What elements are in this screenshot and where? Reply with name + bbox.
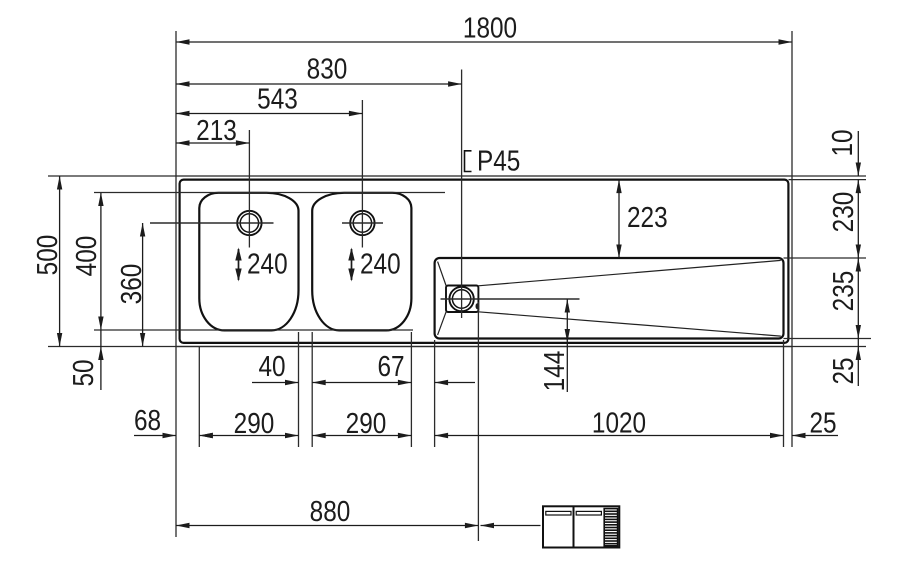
svg-text:500: 500 xyxy=(32,235,64,276)
svg-text:290: 290 xyxy=(234,408,275,440)
svg-text:223: 223 xyxy=(627,202,668,234)
svg-text:68: 68 xyxy=(134,405,161,437)
dim 68 tail left xyxy=(134,435,176,437)
dim 144 line xyxy=(566,299,568,392)
svg-text:144: 144 xyxy=(539,351,571,392)
bowl 1 hole crosshair vertical (213 extension) xyxy=(248,130,250,248)
extension line bowls top tangent xyxy=(94,192,445,194)
dim 830 line xyxy=(176,83,462,85)
svg-text:40: 40 xyxy=(258,351,285,383)
extension bowl1 left below xyxy=(198,347,200,447)
dim 1020 line xyxy=(435,435,784,437)
drainer diagonal top-left xyxy=(438,262,447,286)
svg-text:50: 50 xyxy=(68,359,100,386)
drain hole crosshair horizontal (144 top reference) xyxy=(441,298,580,300)
svg-text:235: 235 xyxy=(828,271,860,312)
svg-text:830: 830 xyxy=(307,54,348,86)
svg-text:213: 213 xyxy=(196,115,237,147)
counter inner edge rect (10mm edge profile) xyxy=(180,180,789,343)
dim 213 line xyxy=(176,142,249,144)
bowl 1 hole crosshair horizontal xyxy=(150,222,274,224)
svg-text:1020: 1020 xyxy=(592,408,646,440)
cabinet leader arrow xyxy=(481,525,541,527)
svg-text:67: 67 xyxy=(377,351,404,383)
extension bowl1 right below xyxy=(298,332,300,447)
drainer tray outline xyxy=(435,258,784,339)
drainer diagonal top-right xyxy=(478,260,781,285)
counter outer edge rect 1800x500 xyxy=(176,176,792,347)
svg-text:25: 25 xyxy=(828,357,860,384)
drainer diagonal bottom-left xyxy=(438,312,447,335)
svg-text:25: 25 xyxy=(809,408,836,440)
extension line left edge top xyxy=(175,31,177,176)
bowl 2 hole crosshair horizontal xyxy=(342,222,383,224)
drain hole crosshair vertical (830 extension) xyxy=(461,70,463,319)
extension line bowls bottom tangent xyxy=(94,329,413,331)
dim 400 line xyxy=(100,193,102,331)
extension drainer right below xyxy=(783,340,785,447)
dim 230 line xyxy=(857,180,859,258)
extension drainer left below xyxy=(434,340,436,447)
cabinet icon grille xyxy=(604,509,617,546)
svg-text:400: 400 xyxy=(71,236,103,277)
dim 50 line and arrow xyxy=(100,330,102,390)
bowl 2 faucet hole xyxy=(350,211,374,235)
dim 290 second line xyxy=(312,435,411,437)
dim 67 tail right xyxy=(435,382,475,384)
svg-text:10: 10 xyxy=(827,129,859,156)
dim 25 bottom tail xyxy=(792,435,838,437)
cabinet icon divider xyxy=(573,506,575,547)
extension 880 right (sump right) xyxy=(477,302,479,541)
extension counter right below xyxy=(791,347,793,447)
svg-text:880: 880 xyxy=(310,496,351,528)
extension top edge left xyxy=(48,175,176,177)
svg-text:240: 240 xyxy=(360,249,401,281)
svg-text:240: 240 xyxy=(247,249,288,281)
dim 500 line xyxy=(59,176,61,347)
small ink blob on sump right edge xyxy=(476,303,480,309)
dim 290 first line xyxy=(199,435,298,437)
svg-text:543: 543 xyxy=(257,84,298,116)
cabinet icon body xyxy=(543,506,619,547)
dim 880 line xyxy=(176,525,478,527)
svg-text:230: 230 xyxy=(828,192,860,233)
right extension drainer bottom xyxy=(784,338,872,340)
drainer diagonal bottom-right xyxy=(478,312,781,336)
dim 10 line xyxy=(857,131,859,176)
svg-text:360: 360 xyxy=(116,264,148,305)
dim 40/67 middle line xyxy=(312,382,411,384)
drain hole xyxy=(449,287,473,311)
extension bottom edge datum xyxy=(48,346,866,348)
dim 25 right line xyxy=(857,339,859,387)
cabinet icon handle right xyxy=(576,511,601,515)
extension bowl2 left below xyxy=(311,332,313,447)
svg-text:1800: 1800 xyxy=(463,13,517,45)
cabinet icon handle left xyxy=(546,511,571,515)
bowl 1 faucet hole xyxy=(237,211,261,235)
dim 360 line xyxy=(142,223,144,347)
bowl 2 outline xyxy=(312,193,411,331)
right extension inner top edge xyxy=(789,179,867,181)
extension counter left below (to 880 row) xyxy=(175,347,177,537)
right extension top edge xyxy=(792,175,866,177)
P45 edge symbol xyxy=(465,151,472,172)
dim 235 line xyxy=(857,258,859,339)
bowl 1 outline xyxy=(199,193,298,331)
extension line right edge top xyxy=(791,31,793,176)
dim 1800 line xyxy=(176,41,792,43)
dim 40 tail left xyxy=(252,382,299,384)
dim 223 line xyxy=(618,180,620,258)
bowl 1 240 double arrow xyxy=(238,249,240,280)
svg-text:290: 290 xyxy=(346,408,387,440)
right extension drainer top xyxy=(784,257,867,259)
drainer sump rect xyxy=(446,286,478,313)
bowl 2 hole crosshair vertical (543 extension) xyxy=(361,100,363,248)
bowl 2 240 double arrow xyxy=(351,249,353,280)
svg-text:P45: P45 xyxy=(477,146,520,178)
dim 543 line xyxy=(176,113,362,115)
extension bowl2 right below xyxy=(410,332,412,447)
